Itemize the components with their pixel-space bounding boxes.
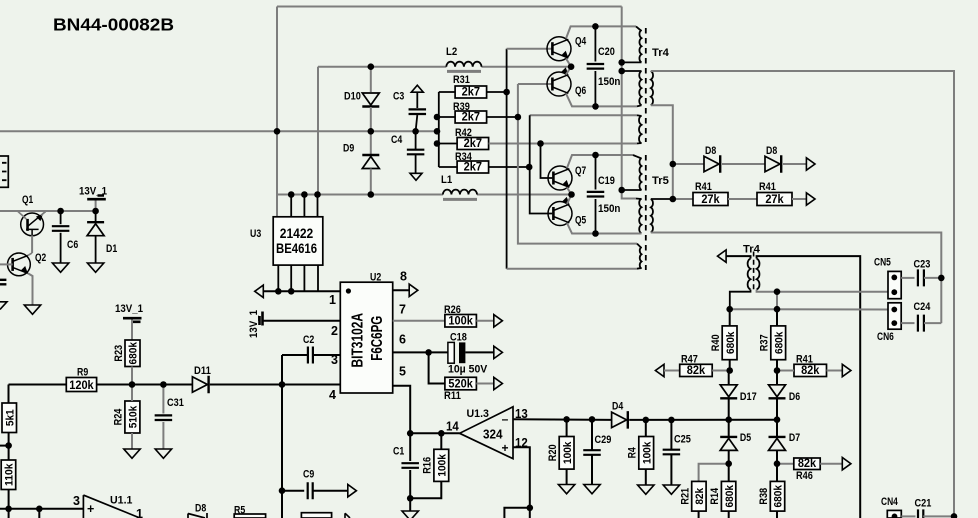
output arrow R46	[842, 458, 851, 470]
CN5 pin2 dot	[891, 289, 897, 295]
wire R26 to arrow	[476, 320, 493, 322]
wire bus to D9	[370, 131, 372, 154]
junction Tr4 winding1 bottom	[618, 59, 625, 66]
wire arrow to R47	[664, 370, 680, 372]
wire D5 to node	[728, 451, 730, 464]
svg-text:150n: 150n	[598, 203, 621, 215]
wire Q7 collector to Tr5 winding1 top	[567, 155, 633, 168]
svg-text:BIT3102A: BIT3102A	[350, 313, 367, 368]
resistor R40	[710, 326, 737, 360]
svg-text:Tr4: Tr4	[743, 244, 761, 256]
wire D11 to U2 pin4	[210, 384, 340, 386]
wire L1 to Q7/Q5 node	[477, 194, 572, 196]
svg-text:C3: C3	[393, 91, 404, 103]
svg-text:D17: D17	[740, 391, 757, 403]
wire node to R41 82k	[777, 370, 794, 372]
svg-text:520k: 520k	[448, 376, 473, 390]
wire to L1	[371, 194, 443, 196]
ground below R20	[558, 485, 574, 494]
svg-text:100k: 100k	[641, 441, 653, 464]
svg-text:R4: R4	[627, 446, 639, 458]
wire Tr4 secondary bottom lead down to Tr5	[651, 105, 673, 199]
svg-text:R40: R40	[710, 334, 722, 351]
inductor L2 core bar	[447, 70, 481, 73]
svg-text:82k: 82k	[687, 363, 706, 377]
op-amp U1.3	[460, 407, 513, 459]
diode D4	[612, 411, 628, 429]
wire C19 bottom lead	[595, 199, 597, 234]
junction U3 top pin3	[301, 191, 308, 198]
svg-text:100k: 100k	[437, 453, 449, 476]
wire Q6 base horizontal	[518, 83, 552, 85]
wire pin13 row right of D4	[629, 419, 777, 421]
junction pin12 branch	[527, 505, 534, 512]
wire Tr4 winding1 top corner	[636, 26, 642, 31]
net arrow below C4	[410, 173, 422, 180]
svg-text:5: 5	[399, 365, 406, 379]
junction D9 bottom on node row	[368, 191, 375, 198]
wire R23 to row	[131, 367, 133, 385]
wire vertical x318	[317, 67, 319, 195]
ground below R24	[124, 449, 140, 458]
svg-text:U3: U3	[250, 228, 261, 240]
junction D17/D5 on row	[725, 416, 732, 423]
wire R38 bottom	[776, 511, 778, 518]
svg-text:82k: 82k	[798, 456, 817, 470]
junction R37 bottom	[774, 367, 781, 374]
svg-text:BE4616: BE4616	[276, 240, 317, 256]
svg-text:C9: C9	[303, 469, 314, 481]
inductor L2	[446, 62, 481, 67]
svg-text:680k: 680k	[773, 484, 785, 507]
transformer Tr4 pickup core	[753, 252, 755, 291]
svg-text:C21: C21	[915, 498, 932, 510]
wire C21 to right vertical	[923, 515, 954, 517]
svg-text:5k1: 5k1	[4, 409, 16, 426]
wire R42 right to Tr4 feedback winding bottom	[489, 143, 637, 145]
wire C25 top	[670, 420, 672, 449]
transformer Tr5 secondary winding	[651, 199, 653, 233]
svg-text:Tr5: Tr5	[652, 175, 669, 187]
wire Tr4 winding2 bottom corner	[637, 105, 642, 106]
junction C23 on right vertical	[938, 275, 945, 282]
svg-text:120k: 120k	[69, 378, 94, 392]
connector stub left edge	[0, 156, 8, 187]
svg-text:1: 1	[329, 293, 336, 307]
resistor R38	[758, 481, 785, 511]
wire to D8	[673, 163, 704, 165]
capacitor C21 (clipped)	[918, 509, 923, 518]
wire to C9	[282, 490, 304, 492]
svg-text:C29: C29	[595, 434, 612, 446]
power bar stub left edge	[0, 280, 6, 285]
junction R39 left	[434, 114, 441, 121]
wire U3 bottom pin3	[303, 265, 305, 291]
IC U3 box	[273, 217, 323, 265]
wire U3 top pin4	[317, 195, 319, 217]
wire U3 bottom pin2	[290, 265, 292, 291]
wire to R37	[776, 309, 778, 326]
svg-text:680k: 680k	[725, 331, 737, 354]
svg-text:U2: U2	[370, 272, 381, 284]
wire bottom row to U1.1	[0, 508, 83, 510]
wire Q2 collector join	[28, 253, 32, 256]
junction U3 top pin4	[314, 191, 321, 198]
connector CN6	[888, 303, 901, 329]
wire Tr5 secondary top lead	[651, 198, 673, 200]
wire D10 to bus	[370, 107, 372, 131]
wire D17 to row	[728, 399, 730, 420]
junction R23/R24 on D11 row	[129, 381, 136, 388]
wire C24 to vertical	[924, 322, 941, 324]
wire x282 vertical down	[281, 385, 283, 518]
wire Q1 base stub	[17, 211, 26, 219]
wire 110k down	[8, 490, 10, 509]
wire pickup right winding bottom to CN5	[757, 290, 888, 292]
transformer Tr5 primary winding1	[639, 158, 641, 190]
svg-text:D11: D11	[194, 365, 211, 377]
CN6 pin1 dot	[891, 307, 897, 313]
transistor Q6	[547, 67, 571, 96]
junction R40 bottom	[726, 367, 733, 374]
wire C29 top	[591, 419, 593, 449]
wire Q6 emitter to Tr4 winding2 bottom	[566, 94, 637, 107]
diode D9	[362, 155, 379, 169]
connector CN4 clipped	[887, 510, 901, 518]
wire CN6 to C24	[901, 322, 914, 324]
inductor L1	[443, 190, 477, 195]
svg-text:680k: 680k	[724, 484, 736, 507]
wire Tr5 winding2 bottom to Q5 emitter	[596, 233, 642, 235]
svg-text:2: 2	[331, 324, 338, 338]
wire C3 to bus	[416, 115, 418, 131]
wire R16 top	[440, 433, 442, 449]
svg-text:R24: R24	[113, 408, 125, 426]
svg-text:C24: C24	[914, 301, 932, 313]
wire node to R14	[728, 464, 730, 482]
svg-text:C1: C1	[393, 446, 404, 458]
wire Q4 emitter to node	[566, 59, 571, 67]
transistor Q1	[21, 211, 46, 236]
svg-text:U1.1: U1.1	[110, 495, 132, 507]
wire U2 pin5 down	[393, 386, 411, 434]
wire R24 to ground	[131, 433, 133, 449]
wire R40 node to D17	[728, 371, 730, 385]
svg-text:2k7: 2k7	[462, 110, 481, 124]
svg-text:R14: R14	[709, 487, 721, 505]
wire U3 top pin3	[303, 195, 305, 217]
svg-text:13V_1: 13V_1	[115, 303, 143, 315]
wire R16 bottom to C1 node	[410, 481, 441, 498]
wire Tr5 feedback bottom corner	[637, 267, 642, 270]
wire 5k1 to 110k	[8, 433, 10, 461]
junction bottom row 2	[36, 506, 43, 513]
power bar 13V_1 second	[123, 318, 142, 322]
wire D8 to D8b	[722, 163, 765, 165]
wire Q5 emitter	[567, 223, 596, 234]
wire R39 right	[487, 116, 518, 118]
junction D1 top	[92, 208, 99, 215]
svg-text:82k: 82k	[694, 487, 706, 505]
wire R11 to arrow	[476, 383, 493, 385]
wire bus to C4	[415, 131, 417, 149]
wire pin6 node down to R11	[429, 352, 445, 383]
wire C23 to vertical	[924, 277, 941, 279]
svg-text:2k7: 2k7	[462, 85, 481, 99]
wire pin14 input	[410, 432, 459, 434]
junction pin5/C1/pin14 node	[407, 430, 414, 437]
CN6 pin2 dot	[891, 320, 897, 326]
wire R31 right	[487, 91, 507, 93]
wire pickup right winding top to far right down	[757, 256, 861, 518]
svg-text:L2: L2	[446, 46, 457, 58]
junction bus to resistor bank	[434, 128, 441, 135]
wire node to R46	[777, 463, 794, 465]
wire Tr5 winding1 bottom to x622	[622, 189, 642, 191]
wire Tr5 winding2 top corner	[636, 198, 642, 201]
wire D1 bottom lead	[95, 236, 97, 263]
junction C21 right	[951, 513, 958, 518]
wire Q2 emitter down	[28, 273, 33, 304]
wire C3 top lead	[416, 92, 418, 108]
transformer Tr4 pickup right winding	[757, 259, 760, 290]
wire U3 bottom row to U2 pin1	[263, 290, 340, 292]
junction C19 top	[592, 152, 599, 159]
wire Tr4 feedback top corner	[637, 114, 642, 117]
output arrow U2 pin8	[409, 284, 418, 296]
wire Tr4 secondary top lead to right edge and down	[651, 71, 954, 516]
transistor Q2	[8, 253, 31, 276]
svg-text:F6C6PG: F6C6PG	[369, 316, 386, 361]
wire R41 82k to arrow	[827, 370, 843, 372]
wire CN5 to C23	[901, 277, 914, 279]
svg-text:10µ 50V: 10µ 50V	[448, 364, 488, 376]
transformer Tr4 core	[645, 28, 647, 142]
wire 13V_1 bar to U2 pin2	[264, 320, 341, 322]
svg-text:Q6: Q6	[575, 85, 586, 97]
svg-text:680k: 680k	[773, 331, 785, 354]
transformer Tr5 primary winding2	[639, 199, 641, 234]
capacitor C3	[409, 109, 427, 114]
wire C19 top lead	[595, 155, 597, 190]
svg-text:L1: L1	[441, 174, 452, 186]
svg-text:U1.3: U1.3	[467, 408, 489, 420]
wire 13V_1 to R23	[131, 320, 133, 341]
wire Tr5 winding junction to winding2 top	[622, 190, 636, 199]
wire U2 pin8	[393, 289, 409, 291]
wire D10 anode lead	[370, 67, 372, 92]
capacitor C9	[308, 482, 313, 499]
resistor R23	[113, 340, 140, 367]
svg-text:680k: 680k	[128, 341, 140, 364]
resistor R11	[445, 376, 477, 390]
resistor R20	[547, 437, 574, 470]
junction R34 right on Q5 base line	[526, 164, 533, 171]
svg-text:D7: D7	[789, 432, 800, 444]
junction R4 on row	[643, 417, 650, 424]
wire pin13 row left of D4	[513, 418, 612, 421]
svg-text:R11: R11	[444, 390, 461, 402]
wire D1 top lead	[95, 211, 97, 221]
wire to Tr5 feedback winding bottom	[507, 268, 637, 270]
junction U3 top pin2	[288, 191, 295, 198]
wire pickup left winding bottom down	[730, 290, 751, 310]
svg-text:R21: R21	[680, 488, 692, 505]
capacitor C20	[587, 64, 605, 69]
svg-text:CN6: CN6	[877, 331, 894, 343]
wire R9 left	[9, 384, 67, 386]
arrow bottom (clipped)	[345, 513, 350, 518]
capacitor C25	[663, 450, 681, 455]
wire C4 bottom lead	[415, 155, 417, 173]
svg-text:R37: R37	[759, 334, 771, 351]
wire vertical right branch x622	[621, 7, 623, 191]
junction U2 pin6 node	[425, 349, 432, 356]
wire Tr5 feedback top corner	[637, 244, 642, 248]
wire D7 to node	[776, 451, 778, 464]
output arrow R41 row	[806, 193, 815, 205]
junction C3-C4 on bus	[412, 128, 419, 135]
transformer Tr4 pickup left winding	[748, 259, 751, 290]
transformer Tr4 primary winding1	[639, 30, 641, 62]
wire R14 bottom	[728, 511, 730, 518]
inductor L1 core bar	[443, 198, 477, 201]
svg-text:+: +	[87, 502, 94, 516]
wire C29 bottom	[591, 455, 593, 484]
net arrow left of R47	[655, 364, 664, 376]
resistor bottom middle (clipped)	[301, 513, 331, 518]
wire R4 top	[645, 420, 647, 437]
wire C6 top lead	[60, 211, 62, 224]
resistor R41 first	[693, 192, 728, 206]
svg-text:510k: 510k	[128, 405, 140, 428]
wire U2 pin7 to R26	[393, 320, 445, 322]
resistor 5k1	[2, 403, 17, 433]
wire D6 to row	[776, 399, 778, 420]
svg-text:C2: C2	[303, 334, 314, 346]
wire Q1 emitter to rail	[41, 211, 46, 216]
svg-text:C25: C25	[674, 434, 691, 446]
svg-text:C20: C20	[598, 46, 615, 58]
wire C31 to ground	[162, 422, 164, 449]
wire U3 top pin2	[290, 195, 292, 217]
wire node to R21	[699, 464, 729, 482]
wire 13V_1 rail left	[0, 210, 96, 212]
capacitor C4	[407, 150, 425, 155]
wire row down to C31	[162, 385, 164, 414]
wire R34 left	[439, 166, 457, 168]
resistor R14	[709, 481, 736, 511]
capacitor C24	[918, 315, 924, 332]
wire R46 to arrow	[820, 463, 842, 465]
wire Q4 base line down	[506, 49, 508, 269]
resistor R39	[455, 110, 487, 124]
svg-text:82k: 82k	[801, 363, 820, 377]
junction U3 bottom pin1	[275, 288, 282, 295]
ground below Q2	[24, 305, 40, 314]
wire R42 left	[439, 143, 457, 145]
svg-text:C19: C19	[598, 175, 615, 187]
junction D6/D7 on row	[774, 416, 781, 423]
junction R42 left	[434, 140, 441, 147]
svg-text:R46: R46	[796, 470, 813, 482]
svg-text:D4: D4	[612, 401, 624, 413]
capacitor C19	[587, 192, 605, 197]
transformer Tr4 feedback winding	[639, 116, 642, 144]
junction R41 row tap	[670, 196, 677, 203]
wire row to D7	[776, 420, 778, 437]
wire C2 to U2 pin3	[313, 354, 340, 356]
resistor 110k	[1, 460, 16, 490]
capacitor C18 electrolytic	[448, 342, 454, 363]
svg-text:D6: D6	[789, 391, 800, 403]
wire C6 bottom lead	[60, 233, 62, 263]
svg-text:Q4: Q4	[575, 36, 587, 48]
wire corner down to 5k1	[8, 385, 10, 404]
wire C2 left	[282, 354, 308, 356]
svg-text:R23: R23	[113, 345, 125, 362]
transformer Tr5 feedback winding	[640, 247, 642, 269]
output arrow C18	[494, 346, 503, 358]
wire C20 top lead	[594, 26, 596, 61]
svg-text:C18: C18	[450, 332, 467, 344]
power bar 13V_1 left	[87, 196, 106, 200]
svg-text:D1: D1	[106, 243, 117, 255]
junction R42 right	[537, 140, 544, 147]
ground below D1	[87, 263, 103, 272]
svg-text:Q5: Q5	[575, 215, 586, 227]
svg-text:8: 8	[400, 270, 407, 284]
svg-text:C4: C4	[391, 134, 403, 146]
wire Q4 collector to Tr4 winding1 top	[566, 26, 636, 38]
junction D5 bottom node	[725, 460, 732, 467]
wire pin12 branch left down	[504, 508, 529, 518]
wire Q7 base line	[541, 144, 553, 179]
svg-text:C23: C23	[914, 259, 931, 271]
net arrow above C3	[411, 85, 423, 92]
ground below C25	[663, 485, 679, 494]
connector CN5	[888, 271, 901, 298]
wire Q6 collector to node	[566, 67, 571, 75]
svg-text:C6: C6	[67, 239, 78, 251]
transformer Tr5 core	[645, 155, 647, 270]
wire main bus horizontal	[0, 130, 437, 132]
junction R39 right on Q6 base line	[515, 114, 522, 121]
net arrow into Tr4 pickup	[718, 250, 727, 262]
junction U3 bottom pin2	[288, 288, 295, 295]
svg-text:–: –	[502, 412, 509, 426]
junction D10-D9 on bus	[368, 128, 375, 135]
svg-text:Q1: Q1	[22, 194, 33, 206]
output arrow D8 row	[806, 158, 815, 170]
junction C31 on D11 row	[160, 381, 167, 388]
resistor R26	[445, 314, 477, 328]
junction R20 on pin13 row	[563, 416, 570, 423]
wire from bus down to U3 pin1 via node row	[276, 131, 278, 217]
wire R34 right	[489, 166, 530, 168]
diode D7	[769, 437, 786, 451]
IC U2 box	[340, 282, 392, 393]
wire Q5 collector to node	[567, 195, 572, 205]
diode D6	[769, 385, 786, 399]
junction Tr5 windings x622	[618, 187, 625, 194]
svg-text:R20: R20	[547, 444, 559, 461]
wire R20 bottom	[566, 469, 568, 484]
wire top rail horizontal	[277, 6, 622, 8]
junction Q4 emitter Q6 collector	[568, 63, 575, 70]
svg-text:2k7: 2k7	[464, 160, 483, 174]
output arrow R26	[494, 315, 503, 327]
